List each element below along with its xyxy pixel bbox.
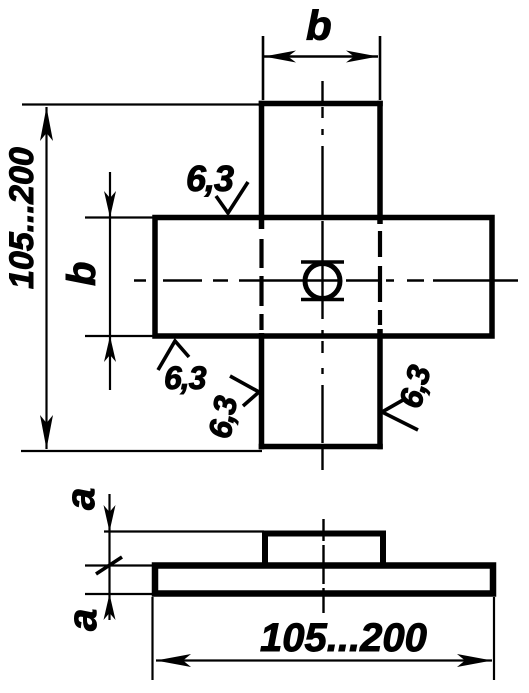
dimension line 105..200 vertical [45,107,47,449]
vertical bar outline (top view boss) [259,101,383,450]
front view boss [265,534,383,566]
extension line front left (105...200) [151,597,153,680]
arrow down (105..200) [40,415,53,449]
svg-text:6,3: 6,3 [201,393,244,441]
extension line b-left lower [85,335,153,337]
svg-text:b: b [60,262,104,286]
oblique tick (a middle) [96,557,122,574]
hidden edge right (dashed) [378,231,382,325]
center hole circle [305,264,340,299]
arrow left (105...200 bottom) [156,654,191,667]
arrow left (b top) [264,51,296,63]
arrow down to top edge (b left) [104,191,116,218]
arrow down (a top) [104,505,116,532]
hole tangent tick bottom [301,298,344,302]
front view centerline [322,519,324,613]
svg-text:b: b [306,2,332,49]
arrow up (105..200) [40,107,53,141]
roughness mark at boss right edge 6,3 [382,400,418,430]
front view plate [155,566,493,594]
horizontal bar outline (top view plate) [155,218,492,337]
arrow right (b top) [346,51,378,63]
hole tangent tick top [301,260,344,264]
svg-text:105...200: 105...200 [3,147,41,289]
extension line plate bottom (a) [85,593,154,595]
vertical centerline (top view) [321,81,323,470]
extension line top (105..200) [22,103,262,105]
arrow right (105...200 bottom) [457,654,492,667]
extension line bottom (105..200) [21,450,262,452]
svg-text:6,3: 6,3 [164,360,207,396]
svg-text:105...200: 105...200 [260,616,427,660]
svg-text:a: a [61,609,105,631]
extension line plate top (a) [85,564,154,566]
hidden edge left (dashed) [259,239,263,330]
dimension line 105...200 bottom [156,659,492,661]
arrow up (a bottom) [104,594,116,620]
roughness mark bottom-left 6,3 [158,341,189,370]
svg-text:6,3: 6,3 [392,361,438,412]
extension line front right (105...200) [493,597,495,680]
extension line b-top left [262,36,265,100]
extension line boss top (a) [104,530,264,532]
extension line b-top right [379,36,382,100]
roughness mark at boss left edge 6,3 [230,376,259,406]
horizontal centerline (top view) [134,279,518,281]
arrow up to bottom edge (b left) [104,336,116,362]
dimension line b top [264,55,378,58]
extension line b-left upper [85,216,153,218]
svg-text:a: a [59,488,103,510]
dimension line b left [109,172,111,390]
dimension line a vertical [108,494,110,620]
svg-text:6,3: 6,3 [186,158,234,199]
roughness mark top 6,3 [216,182,248,213]
